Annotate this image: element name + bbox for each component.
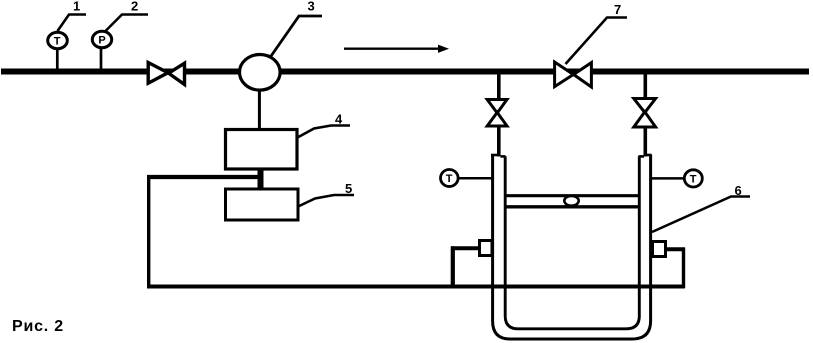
svg-text:1: 1 [73, 0, 80, 14]
svg-text:T: T [446, 173, 453, 185]
svg-text:P: P [98, 35, 105, 47]
svg-text:T: T [54, 36, 61, 48]
svg-text:Рис. 2: Рис. 2 [12, 318, 64, 335]
svg-text:2: 2 [131, 0, 138, 14]
svg-text:4: 4 [335, 112, 343, 127]
svg-text:6: 6 [735, 183, 742, 198]
svg-text:3: 3 [308, 0, 315, 14]
svg-text:5: 5 [345, 181, 352, 196]
svg-text:T: T [690, 174, 697, 186]
svg-text:7: 7 [614, 2, 621, 17]
